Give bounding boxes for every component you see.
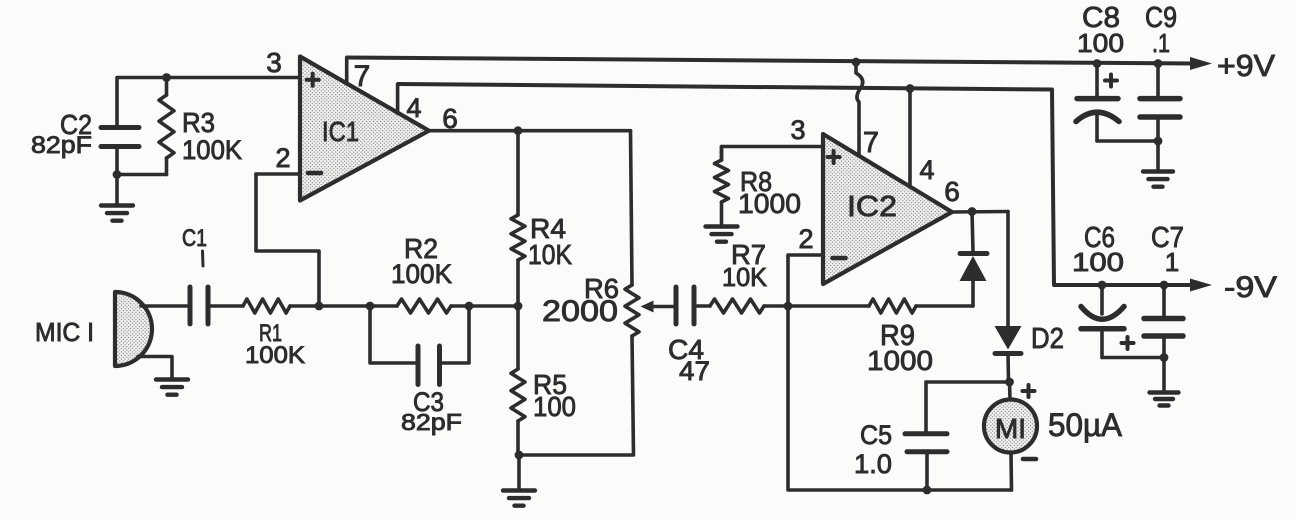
pin label 7 (IC2) bbox=[863, 127, 879, 159]
svg-text:10K: 10K bbox=[528, 239, 572, 270]
svg-text:IC1: IC1 bbox=[322, 116, 359, 147]
svg-text:100: 100 bbox=[533, 391, 576, 422]
label C3 bbox=[413, 387, 444, 417]
svg-text:47: 47 bbox=[679, 356, 710, 386]
wire C4 to R7 bbox=[694, 304, 710, 308]
label 10K (R7) bbox=[722, 262, 768, 292]
node IC2 pin7 / +9V rail bbox=[852, 58, 861, 67]
resistor R4 bbox=[511, 131, 525, 306]
resistor R7 bbox=[710, 299, 764, 313]
svg-text:2: 2 bbox=[275, 143, 290, 173]
label 100 (R5) bbox=[533, 391, 576, 422]
svg-text:4: 4 bbox=[919, 155, 934, 185]
svg-text:2: 2 bbox=[798, 224, 813, 254]
label R6 bbox=[584, 273, 619, 304]
label 47 (C4) bbox=[679, 356, 710, 386]
svg-text:+9V: +9V bbox=[1217, 48, 1275, 83]
resistor R1 bbox=[243, 299, 290, 313]
wire R9 to D1 bbox=[916, 304, 973, 308]
node C (R2/C3 right) bbox=[465, 302, 474, 311]
wire bottom return loop bbox=[788, 306, 1012, 490]
ground (R8) bbox=[706, 227, 738, 242]
wire R1 to node A bbox=[290, 304, 319, 308]
ground (C6/C7) bbox=[1150, 393, 1179, 406]
svg-text:MIC I: MIC I bbox=[35, 317, 94, 347]
resistor R5 bbox=[511, 306, 525, 455]
wire IC1 pin4 riser bbox=[396, 84, 400, 113]
resistor R2 bbox=[397, 299, 451, 313]
ground (MIC1) bbox=[156, 380, 188, 395]
label 100K (R3) bbox=[182, 135, 242, 165]
svg-text:1.0: 1.0 bbox=[854, 449, 892, 479]
label R3 bbox=[182, 107, 215, 138]
wire IC2 output down bbox=[1006, 212, 1010, 327]
svg-text:3: 3 bbox=[790, 115, 805, 145]
resistor R3 bbox=[117, 78, 174, 175]
svg-text:82pF: 82pF bbox=[31, 132, 92, 159]
label 100K (R2) bbox=[391, 259, 452, 289]
+9V arrowhead bbox=[1190, 57, 1212, 70]
node C8 / +9V rail bbox=[1093, 59, 1102, 68]
capacitor C9 bbox=[1140, 64, 1180, 171]
svg-text:6: 6 bbox=[944, 176, 960, 207]
pin label 2 (IC2) bbox=[798, 224, 813, 254]
capacitor C6 (electrolytic) bbox=[1081, 285, 1164, 358]
label 1.0 (C5) bbox=[854, 449, 892, 479]
meter M1 bbox=[984, 382, 1037, 490]
pin label 6 (IC1) bbox=[442, 103, 458, 134]
polarity + (C6) bbox=[1122, 337, 1134, 349]
svg-text:C5: C5 bbox=[860, 420, 892, 450]
node output/R4 junction bbox=[514, 126, 523, 135]
wire R7 to node E bbox=[764, 304, 788, 308]
node pin3/R3 junction bbox=[162, 73, 171, 82]
ground (C8/C9) bbox=[1143, 172, 1173, 187]
label C1 bbox=[182, 225, 207, 266]
svg-text:100: 100 bbox=[1077, 28, 1124, 58]
label C7 bbox=[1151, 222, 1184, 254]
wiper arrow (R6) bbox=[641, 301, 677, 313]
wire C5 top branch bbox=[926, 380, 1010, 384]
label 1000 (R8) bbox=[738, 188, 801, 219]
svg-text:D2: D2 bbox=[1031, 323, 1064, 355]
label R8 bbox=[740, 166, 772, 197]
svg-text:MI: MI bbox=[995, 413, 1026, 444]
capacitor C2 bbox=[101, 128, 139, 175]
wire IC2 pin2 input bbox=[788, 255, 823, 306]
svg-text:10K: 10K bbox=[722, 262, 768, 292]
label 100K (R1) bbox=[245, 342, 305, 369]
wire -9V rail (IC1 pin4 rail) bbox=[398, 84, 1192, 285]
label .1 (C9) bbox=[1152, 28, 1170, 58]
pin label 4 (IC2) bbox=[919, 155, 934, 185]
node D2/C5/M1 junction bbox=[1005, 378, 1014, 387]
label 2000 (R6) bbox=[542, 295, 618, 328]
label 100 (C6) bbox=[1072, 247, 1124, 277]
diode D1 bbox=[960, 212, 988, 307]
svg-text:-9V: -9V bbox=[1224, 271, 1277, 304]
polarity - (M1) bbox=[1023, 457, 1036, 462]
polarity + (C8) bbox=[1105, 75, 1117, 87]
label MIC I bbox=[35, 317, 94, 347]
node R5/R6 bottom junction bbox=[515, 451, 524, 460]
net label +9V bbox=[1217, 48, 1275, 83]
label R1 bbox=[259, 320, 282, 347]
wire MIC1 output bbox=[141, 304, 190, 308]
wire IC1 pin7 riser bbox=[345, 58, 349, 84]
svg-text:2000: 2000 bbox=[542, 295, 618, 328]
node D (main/R4/R5) bbox=[514, 302, 523, 311]
svg-text:.1: .1 bbox=[1152, 28, 1170, 58]
node B (R2/C3 left) bbox=[366, 302, 375, 311]
pin label 3 (IC1) bbox=[266, 47, 282, 78]
diode D2 bbox=[995, 326, 1022, 382]
node IC2 pin4 / rail2 bbox=[906, 84, 915, 93]
wire node E to R9 bbox=[788, 304, 869, 308]
svg-text:IC2: IC2 bbox=[847, 191, 897, 223]
label 1 (C7) bbox=[1165, 247, 1179, 277]
capacitor C8 (electrolytic) bbox=[1076, 64, 1158, 142]
pin label 4 (IC1) bbox=[406, 93, 421, 123]
svg-text:C1: C1 bbox=[182, 225, 207, 252]
op-amp IC2 bbox=[823, 134, 952, 284]
svg-text:1000: 1000 bbox=[738, 188, 801, 219]
pin label 2 (IC1) bbox=[275, 143, 290, 173]
wire IC1 output pin6 bbox=[429, 129, 631, 133]
node C6 / -9V rail bbox=[1098, 281, 1107, 290]
label R2 bbox=[404, 233, 438, 264]
svg-text:1: 1 bbox=[1165, 247, 1179, 277]
node C7 / -9V rail bbox=[1160, 281, 1169, 290]
capacitor C1 bbox=[190, 287, 208, 324]
label C4 bbox=[668, 334, 704, 365]
label R5 bbox=[533, 369, 567, 400]
node A (R1/R2/feedback) bbox=[315, 302, 324, 311]
wire IC2 pin4 riser bbox=[908, 89, 912, 187]
svg-text:3: 3 bbox=[266, 47, 282, 78]
label R7 bbox=[731, 239, 766, 270]
svg-text:100K: 100K bbox=[391, 259, 452, 289]
resistor R9 bbox=[869, 299, 916, 313]
microphone MIC1 bbox=[115, 292, 152, 366]
resistor R8 bbox=[715, 147, 729, 226]
wire IC2 pin3 input bbox=[722, 147, 824, 161]
svg-text:50µA: 50µA bbox=[1048, 407, 1123, 443]
wire R2 to node C bbox=[451, 304, 469, 308]
label 82pF (C2) bbox=[31, 132, 92, 159]
svg-text:1000: 1000 bbox=[867, 345, 933, 376]
node C8/C9 bottom junction bbox=[1154, 137, 1163, 146]
label 100 (C8) bbox=[1077, 28, 1124, 58]
svg-text:100K: 100K bbox=[182, 135, 242, 165]
capacitor C5 bbox=[905, 382, 947, 490]
label D2 bbox=[1031, 323, 1064, 355]
label 50uA bbox=[1048, 407, 1123, 443]
ground (R5/R6) bbox=[503, 455, 535, 506]
wire IC2 output pin6 bbox=[952, 210, 1008, 214]
svg-text:4: 4 bbox=[406, 93, 421, 123]
capacitor C3 bbox=[418, 346, 440, 385]
wire C1 to R1 bbox=[208, 304, 243, 308]
wire MIC1 ground lead bbox=[138, 357, 172, 379]
node C5 bottom junction bbox=[923, 486, 932, 495]
net label -9V bbox=[1224, 271, 1277, 304]
node C6/C7 bottom junction bbox=[1160, 353, 1169, 362]
wire node C to node D bbox=[469, 304, 518, 308]
label C6 bbox=[1084, 222, 1115, 254]
node E (R7/R9/pin2) bbox=[784, 302, 793, 311]
pin label 3 (IC2) bbox=[790, 115, 805, 145]
pin label 6 (IC2) bbox=[944, 176, 960, 207]
wire +9V rail bbox=[347, 58, 1192, 64]
wire IC2 pin7 riser with crossover hop bbox=[856, 62, 863, 156]
svg-text:6: 6 bbox=[442, 103, 458, 134]
wire IC1 pin3 input bbox=[117, 78, 300, 128]
ground (C2/R3) bbox=[101, 175, 133, 221]
capacitor C4 bbox=[676, 287, 694, 324]
node IC2 output / D1 bbox=[968, 207, 977, 216]
-9V arrowhead bbox=[1190, 279, 1212, 292]
wire node A to node B bbox=[319, 304, 370, 308]
wire IC1 pin2 input bbox=[256, 172, 300, 176]
svg-text:100: 100 bbox=[1072, 247, 1124, 277]
label C9 bbox=[1145, 2, 1177, 34]
pin label 7 (IC1) bbox=[354, 60, 371, 93]
wire C3 branch bbox=[370, 306, 469, 363]
node C9 / +9V rail bbox=[1154, 59, 1163, 68]
label C5 bbox=[860, 420, 892, 450]
label C8 bbox=[1082, 2, 1120, 34]
label R4 bbox=[530, 213, 566, 244]
polarity + (M1) bbox=[1023, 385, 1035, 397]
label 1000 (R9) bbox=[867, 345, 933, 376]
wire feedback to IC1 pin2 bbox=[256, 174, 319, 306]
svg-text:100K: 100K bbox=[245, 342, 305, 369]
potentiometer R6 bbox=[519, 131, 639, 455]
capacitor C7 bbox=[1144, 285, 1183, 391]
svg-text:7: 7 bbox=[863, 127, 879, 159]
svg-text:R3: R3 bbox=[182, 107, 215, 138]
node C2/R3 bottom junction bbox=[113, 170, 122, 179]
svg-text:82pF: 82pF bbox=[401, 409, 462, 435]
wire to R2 bbox=[370, 304, 397, 308]
label 82pF (C3) bbox=[401, 409, 462, 435]
label C2 bbox=[60, 109, 92, 140]
label R9 bbox=[880, 320, 915, 352]
op-amp IC1 bbox=[300, 57, 429, 201]
svg-text:7: 7 bbox=[354, 60, 371, 93]
label 10K (R4) bbox=[528, 239, 572, 270]
